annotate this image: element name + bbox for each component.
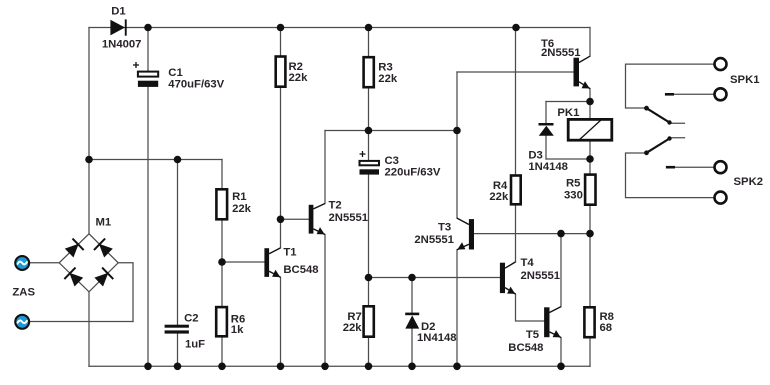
node rail T1e	[277, 363, 285, 371]
svg-text:470uF/63V: 470uF/63V	[168, 79, 224, 91]
svg-text:22k: 22k	[232, 203, 252, 215]
capacitor C1	[133, 62, 158, 87]
node y130 T3	[453, 127, 461, 135]
svg-text:T2: T2	[329, 200, 342, 212]
wire relay bottom to R5	[589, 140, 591, 174]
wire T4 emitter to T5 base	[516, 294, 545, 321]
wire C3 bottom column	[368, 175, 370, 367]
svg-text:C1: C1	[168, 67, 182, 79]
transistor T6	[574, 56, 591, 88]
svg-text:D3: D3	[528, 149, 542, 161]
svg-text:T1: T1	[283, 247, 296, 259]
svg-text:1N4148: 1N4148	[417, 332, 457, 344]
wire contact stub 1	[670, 122, 685, 124]
svg-text:BC548: BC548	[283, 264, 318, 276]
svg-text:330: 330	[564, 189, 583, 201]
wire R8 column upper	[589, 234, 591, 308]
diode D3	[539, 123, 554, 136]
svg-text:C2: C2	[184, 312, 198, 324]
resistor R6	[216, 307, 227, 336]
resistor R1	[216, 189, 227, 219]
diode D2	[405, 313, 419, 329]
wire R2 column / T1 collector	[280, 28, 282, 248]
node rail T5e	[557, 363, 565, 371]
terminal SPK1 bottom	[715, 88, 727, 100]
node rail C2	[174, 363, 182, 371]
node T2 base	[277, 216, 285, 224]
wire SPK2 fixed contact	[675, 166, 714, 168]
svg-text:2N5551: 2N5551	[414, 234, 454, 246]
wire T1 base	[222, 261, 264, 263]
svg-text:22k: 22k	[289, 72, 309, 84]
node top rail R4	[512, 24, 520, 32]
wire contact stub 2	[670, 137, 685, 139]
svg-text:22k: 22k	[489, 191, 509, 203]
svg-text:22k: 22k	[343, 322, 363, 334]
wire SPK1 pole	[626, 64, 714, 108]
wire T2 emitter column	[324, 235, 326, 367]
svg-text:1N4148: 1N4148	[528, 161, 568, 173]
wire R1 R6 column	[221, 160, 223, 367]
terminal SPK2 bottom	[715, 192, 727, 204]
wire C1 column upper	[147, 28, 149, 72]
resistor R7	[364, 306, 374, 336]
wire T6 base	[457, 71, 574, 73]
wire T3 base horizontal	[474, 233, 590, 235]
wire ZAS top terminal	[29, 262, 59, 264]
relay PK1 coil	[568, 119, 612, 140]
resistor R8	[584, 307, 594, 337]
svg-text:1N4007: 1N4007	[102, 39, 142, 51]
resistor R3	[364, 57, 374, 87]
svg-text:PK1: PK1	[557, 107, 579, 119]
terminal SPK1 top	[715, 58, 727, 70]
wire T5 collector column	[560, 234, 562, 307]
wire T6 emitter to relay	[589, 89, 591, 120]
wire R3 column	[368, 28, 370, 161]
resistor R5	[585, 175, 595, 205]
svg-text:R2: R2	[289, 61, 303, 73]
wire R5 bottom	[589, 205, 591, 234]
wire D3 top link	[546, 101, 590, 103]
wire R8 column lower	[589, 337, 591, 366]
svg-text:SPK2: SPK2	[734, 176, 764, 188]
wire T1 emitter column	[280, 277, 282, 366]
wire D2 column lower	[411, 329, 413, 367]
wire C1 column lower	[147, 87, 149, 366]
wire T2 collector column	[324, 131, 326, 204]
terminal ZAS bottom	[14, 314, 30, 330]
terminal SPK2 top	[715, 161, 727, 173]
wire ZAS bottom terminal	[29, 321, 133, 323]
bridge diode bottom-right	[93, 267, 114, 288]
node rail C1	[144, 363, 152, 371]
svg-text:T3: T3	[438, 221, 451, 233]
node relay bottom	[586, 155, 594, 163]
node top rail R3	[365, 24, 373, 32]
wire C2 column upper	[177, 160, 179, 325]
node rail T3e	[453, 363, 461, 371]
wire right column top corner	[589, 28, 591, 57]
wire top rail	[89, 27, 590, 29]
node T4 base left	[365, 274, 373, 282]
svg-text:22k: 22k	[378, 73, 398, 85]
svg-text:2N5551: 2N5551	[329, 212, 369, 224]
wire T5 emitter column	[560, 338, 562, 367]
svg-text:R3: R3	[378, 62, 392, 74]
relay contact set 2	[644, 136, 675, 167]
capacitor C2	[165, 325, 189, 334]
relay contact set 1	[644, 94, 674, 124]
wire raw+ horizontal to R1	[89, 159, 222, 161]
wire D3 cathode stub	[545, 102, 547, 124]
node relay top	[586, 98, 594, 106]
node rail R7	[365, 363, 373, 371]
node T1 base	[218, 258, 226, 266]
wire C2 column lower	[177, 334, 179, 367]
wire D3 bottom link	[546, 158, 590, 160]
wire node horizontal y130	[325, 130, 457, 132]
wire bottom rail	[89, 365, 590, 367]
wire D3 anode stub	[545, 136, 547, 159]
node rail T2e	[321, 363, 329, 371]
svg-text:1uF: 1uF	[185, 339, 205, 351]
svg-text:ZAS: ZAS	[12, 287, 35, 299]
svg-text:1k: 1k	[231, 324, 244, 336]
diode D1	[110, 19, 126, 35]
svg-text:2N5551: 2N5551	[541, 47, 581, 59]
node top rail R2	[277, 24, 285, 32]
svg-text:2N5551: 2N5551	[521, 270, 561, 282]
resistor R4	[511, 176, 521, 205]
svg-text:68: 68	[600, 322, 613, 334]
transistor T2	[309, 204, 325, 235]
wire SPK1 fixed contact	[674, 93, 714, 95]
node raw+ left	[85, 156, 93, 164]
wire D2 column upper	[411, 278, 413, 313]
node D2 top	[408, 274, 416, 282]
wire bridge bottom column	[88, 292, 90, 367]
wire T2 base	[281, 218, 309, 220]
resistor R2	[276, 57, 286, 87]
node y130 R3	[365, 127, 373, 135]
bridge diode top-left	[64, 238, 85, 259]
svg-text:R1: R1	[232, 191, 246, 203]
transistor T1	[264, 248, 280, 277]
transistor T4	[500, 262, 516, 294]
wire SPK2 pole	[626, 153, 714, 198]
node raw+ C2	[174, 156, 182, 164]
wire T4 base horizontal	[369, 277, 500, 279]
node rail D2	[408, 363, 416, 371]
svg-text:T5: T5	[526, 329, 539, 341]
wire T3 emitter column	[456, 250, 458, 367]
terminal ZAS top	[14, 255, 30, 271]
wire R4 T4 column	[515, 28, 517, 262]
wire bridge diamond	[59, 234, 118, 292]
svg-text:D1: D1	[111, 6, 125, 18]
svg-text:SPK1: SPK1	[730, 74, 760, 86]
node rail R6	[218, 363, 226, 371]
svg-text:R7: R7	[347, 311, 361, 323]
wire left column (bridge + to D1 anode)	[88, 28, 90, 234]
bridge diode top-right	[93, 238, 114, 259]
bridge rectifier M1	[64, 238, 115, 288]
wire T3 collector column	[456, 72, 458, 218]
svg-text:BC548: BC548	[508, 342, 543, 354]
node R5 bottom	[586, 230, 594, 238]
wire bridge right vertex L	[118, 263, 133, 322]
transistor T3 (mirrored)	[457, 218, 474, 250]
transistor T5	[544, 307, 561, 338]
svg-text:T4: T4	[521, 257, 535, 269]
bridge diode bottom-left	[64, 267, 85, 288]
svg-text:220uF/63V: 220uF/63V	[385, 166, 441, 178]
capacitor C3	[360, 151, 380, 175]
node top rail C1	[144, 24, 152, 32]
svg-text:R5: R5	[566, 178, 580, 190]
svg-text:M1: M1	[96, 217, 112, 229]
node T5 collector	[557, 230, 565, 238]
svg-text:D2: D2	[421, 321, 435, 333]
